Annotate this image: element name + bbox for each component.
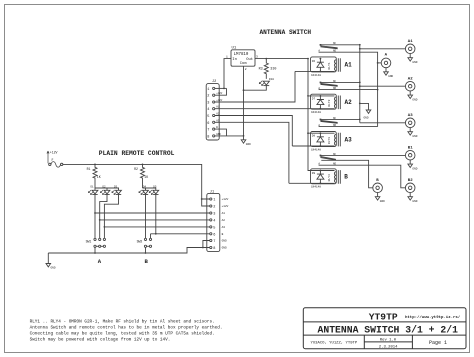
svg-text:RLY4: RLY4 [328, 174, 331, 181]
LED D5 [149, 185, 159, 194]
J2 pin 1 [207, 87, 226, 92]
wire line B to J1 pin6 [151, 234, 210, 239]
svg-text:1N4148: 1N4148 [311, 111, 321, 114]
svg-text:RLY1 .. RLY4 - OMRON G2R-1, Ma: RLY1 .. RLY4 - OMRON G2R-1, Make RF shie… [30, 319, 215, 324]
wire RLY4 bottom from J2 pin6 [289, 182, 335, 184]
svg-text:D8: D8 [312, 135, 316, 138]
svg-text:2.3.2014: 2.3.2014 [379, 345, 398, 349]
connector A2 coax [405, 78, 417, 102]
svg-text:8: 8 [207, 135, 209, 139]
svg-text:A1: A1 [222, 212, 226, 215]
LED D1 [88, 185, 98, 194]
wire U1 Out +10V rail [255, 58, 308, 60]
svg-text:6: 6 [213, 233, 215, 237]
svg-text:In: In [232, 58, 237, 62]
svg-text:NO: NO [333, 50, 337, 53]
svg-text:RLY1: RLY1 [328, 62, 331, 69]
contact RLY4 labels [318, 153, 336, 166]
svg-text:YT9TP: YT9TP [369, 312, 398, 323]
svg-text:1N4148: 1N4148 [311, 186, 321, 189]
svg-text:GND: GND [222, 247, 227, 250]
svg-text:1: 1 [207, 88, 209, 92]
svg-text:2: 2 [213, 206, 215, 210]
svg-text:GND: GND [412, 61, 417, 64]
svg-text:+12V: +12V [222, 198, 229, 201]
svg-text:GND: GND [364, 116, 369, 119]
svg-text:+12V: +12V [50, 150, 58, 154]
svg-text:D3: D3 [114, 185, 118, 188]
J1 pin 8 [202, 246, 227, 251]
J2 pin 3 wire to RLY1 [207, 71, 295, 105]
fuse F [49, 158, 63, 167]
svg-text:A1: A1 [408, 40, 413, 44]
svg-text:GND: GND [380, 200, 385, 203]
svg-text:NC: NC [333, 153, 337, 156]
svg-text:NO: NO [333, 87, 337, 90]
junction bus1 taps [359, 44, 361, 46]
junction +10V RLY1 [307, 58, 309, 60]
connector J1 body [207, 193, 220, 251]
svg-text:GND: GND [388, 75, 393, 78]
svg-text:GND: GND [412, 167, 417, 170]
svg-text:A3: A3 [408, 114, 413, 118]
svg-text:4: 4 [213, 219, 215, 223]
svg-text:D5: D5 [153, 185, 157, 188]
svg-text:B: B [222, 233, 224, 236]
switch SW2 [137, 238, 152, 253]
wire RLY1 bottom from J2 pin3 [295, 70, 335, 72]
ground bus1 [364, 110, 371, 119]
J1 pin 4 [210, 219, 226, 224]
svg-text:7: 7 [207, 129, 209, 133]
svg-text:330: 330 [270, 68, 276, 72]
junction Com/J2 pin8 [243, 135, 245, 137]
svg-text:NC: NC [333, 80, 337, 83]
wire U1 In from J2 pins 1-2 [224, 59, 231, 89]
relay RLY4 [311, 169, 349, 189]
svg-text:ANTENNA SWITCH 3/1 + 2/1: ANTENNA SWITCH 3/1 + 2/1 [318, 324, 459, 335]
wire +12V rail to J1 [63, 164, 210, 199]
J1 pin 6 [210, 233, 224, 238]
svg-text:Out: Out [246, 58, 253, 62]
svg-text:R3: R3 [259, 68, 263, 72]
svg-text:A: A [98, 258, 102, 265]
svg-text:D9: D9 [312, 172, 316, 175]
wire D2 cathode to SW1-2 [100, 195, 107, 239]
svg-text:+12V: +12V [216, 92, 223, 95]
connector B2 coax [405, 179, 417, 203]
svg-text:1N4148: 1N4148 [311, 148, 321, 151]
resistor R1 1K [87, 164, 101, 188]
svg-text:A2: A2 [222, 219, 226, 222]
ground below J2/Com [241, 136, 251, 146]
svg-text:J2: J2 [212, 80, 216, 84]
contact RLY1 NO line [319, 52, 378, 126]
svg-text:D6: D6 [312, 60, 316, 63]
J1 pin 5 [210, 226, 226, 231]
svg-text:A2: A2 [345, 99, 353, 106]
svg-text:A3: A3 [345, 136, 353, 143]
wire U1 Com down to GND [243, 66, 245, 136]
wire LED bridge branch B [143, 188, 156, 190]
J1 pin 1 [201, 198, 229, 203]
svg-text:GND: GND [222, 240, 227, 243]
contact RLY3 NO line [319, 126, 378, 128]
svg-text:6: 6 [207, 122, 209, 126]
wire line A3 to J1 pin5 [104, 226, 209, 228]
svg-text:1K: 1K [144, 175, 148, 179]
svg-text:D4: D4 [143, 185, 147, 188]
contact RLY3 armature wedge [321, 121, 337, 124]
junction bus2 taps [377, 62, 379, 64]
wire RLY3 top [308, 132, 335, 134]
junction +10V/R3 [265, 58, 267, 60]
junction R1 top [94, 164, 96, 166]
svg-text:NO: NO [333, 163, 337, 166]
svg-text:Page 1: Page 1 [429, 340, 447, 346]
contact RLY3 NC line [320, 118, 359, 120]
svg-text:A1: A1 [216, 106, 220, 109]
svg-text:7: 7 [213, 240, 215, 244]
J1 pin 3 [210, 212, 226, 217]
ground remote [46, 253, 56, 269]
wire armature A2 feed [360, 85, 406, 87]
wire RLY2 top [308, 95, 335, 97]
J1 pin 7 [203, 239, 227, 247]
J2 pin 7 [207, 126, 226, 136]
svg-text:B1: B1 [408, 147, 413, 151]
J2 pin 8 wire to GND [207, 133, 243, 140]
svg-text:GND: GND [412, 98, 417, 101]
contact RLY1 armature wedge [321, 46, 337, 49]
junction R2 top [142, 164, 144, 166]
regulator U1 LM7810 body [231, 47, 255, 67]
junction Com/LED return [243, 89, 245, 91]
svg-text:D2: D2 [103, 185, 107, 188]
svg-text:NC: NC [333, 42, 337, 45]
svg-text:YU3ACO, YU1ZZ, YT9TP: YU3ACO, YU1ZZ, YT9TP [311, 341, 358, 345]
contact RLY4 NC line to B1 [320, 154, 405, 156]
svg-text:A3: A3 [216, 119, 220, 122]
svg-text:B: B [344, 174, 348, 181]
relay RLY3 [311, 132, 353, 152]
svg-text:LM7810: LM7810 [234, 53, 249, 57]
contact RLY4 NO line to B2 [319, 165, 406, 188]
junction +10V RLY3 [307, 132, 309, 134]
svg-text:5: 5 [213, 226, 215, 230]
svg-text:1K: 1K [97, 175, 101, 179]
svg-text:ANTENNA SWITCH: ANTENNA SWITCH [260, 29, 312, 36]
svg-text:1: 1 [213, 199, 215, 203]
title block texts [311, 312, 461, 350]
wire D4 cathode to SW2-1 [145, 195, 147, 239]
svg-text:U1: U1 [232, 47, 237, 51]
wire D3 cathode to SW1-3 [104, 195, 118, 239]
svg-text:SW1: SW1 [86, 240, 92, 244]
svg-text:R1: R1 [87, 167, 91, 171]
svg-text:F: F [52, 158, 54, 162]
svg-text:GND: GND [216, 133, 221, 136]
wire RLY3 bottom from J2 pin5 [292, 145, 334, 147]
wire ground rail [48, 248, 209, 254]
svg-text:+12V: +12V [216, 99, 223, 102]
contact RLY3 labels [318, 117, 336, 127]
svg-text:B: B [376, 179, 379, 183]
contact RLY4 armature wire to B [321, 160, 373, 188]
J1 pin 2 [202, 199, 229, 210]
svg-text:A2: A2 [408, 78, 413, 82]
J2 pin 2 [207, 88, 226, 98]
node +12V supply arrow [47, 150, 58, 163]
svg-text:2: 2 [207, 95, 209, 99]
svg-text:4: 4 [207, 108, 209, 112]
connector J2 body [206, 80, 219, 140]
connector B coax [373, 179, 385, 203]
svg-text:A: A [385, 53, 388, 57]
LED D3 [112, 185, 122, 194]
junction +10V RLY2 [307, 95, 309, 97]
svg-text:NO: NO [333, 124, 337, 127]
title block frame [303, 308, 466, 349]
svg-text:3: 3 [207, 102, 209, 106]
connector A1 coax [405, 40, 417, 64]
wire line A2 to J1 pin4 [100, 219, 210, 221]
svg-text:GND: GND [51, 266, 56, 269]
contact RLY2 armature wedge [321, 84, 337, 87]
wire A connector feed from bus2 [378, 62, 382, 64]
svg-text:D10: D10 [269, 78, 274, 81]
resistor R2 1K [134, 164, 148, 188]
wire line A1 to J1 pin3 [95, 212, 210, 214]
relay RLY2 [311, 94, 353, 114]
switch SW1 [86, 238, 106, 253]
svg-text:GND: GND [246, 143, 251, 146]
wire armature A1 feed [360, 48, 406, 50]
junction J2 +12V bracket [223, 88, 225, 90]
contact RLY4 armature wedge [321, 157, 336, 161]
svg-text:A3: A3 [222, 226, 226, 229]
svg-text:NC: NC [333, 117, 337, 120]
contact RLY1 NC line [320, 44, 359, 46]
svg-text:RLY3: RLY3 [328, 137, 331, 144]
svg-text:2: 2 [245, 68, 247, 71]
svg-text:B: B [145, 258, 149, 265]
LED D2 [100, 185, 110, 194]
resistor R3 330 [259, 59, 277, 79]
svg-text:1N4148: 1N4148 [311, 74, 321, 77]
svg-text:RLY2: RLY2 [328, 99, 331, 106]
connector A3 coax [405, 114, 417, 138]
wire D5 cathode to line B [155, 195, 157, 234]
wire bus1 to ground [360, 103, 369, 110]
svg-text:GND: GND [412, 135, 417, 138]
LED D10 power indicator [244, 78, 275, 90]
notes text block [30, 319, 223, 342]
svg-text:D1: D1 [91, 185, 95, 188]
svg-text:GND: GND [412, 200, 417, 203]
svg-text:Rev 1.0: Rev 1.0 [380, 339, 397, 343]
svg-text:R2: R2 [134, 167, 138, 171]
svg-text:Com: Com [240, 62, 248, 66]
svg-text:Conecting cable may be quite l: Conecting cable may be quite long, teste… [30, 331, 215, 336]
svg-text:PLAIN REMOTE CONTROL: PLAIN REMOTE CONTROL [99, 150, 175, 157]
svg-text:Switch may be powered with col: Switch may be powered with coltage from … [30, 337, 171, 342]
connector A coax [381, 53, 393, 78]
svg-text:A2: A2 [216, 113, 220, 116]
wire LED bridge branch A [95, 188, 119, 190]
wire armature A3 feed [360, 122, 406, 124]
svg-text:Antenna Switch and remote cont: Antenna Switch and remote control has to… [30, 325, 223, 330]
svg-text:3: 3 [213, 213, 215, 217]
connector B1 coax [405, 147, 417, 171]
wire bus1 NC/ground bus [359, 45, 361, 123]
wire D1 cathode to SW1-1 [94, 195, 96, 239]
wire +10V vertical feed to relay coils [308, 59, 335, 171]
svg-text:A1: A1 [345, 62, 353, 69]
svg-text:B2: B2 [408, 179, 413, 183]
svg-text:D7: D7 [312, 97, 316, 100]
svg-text:5: 5 [207, 115, 209, 119]
J2 pin 5 wire to RLY3 [207, 113, 292, 147]
J2 pin 4 wire to RLY2 [207, 106, 334, 113]
contact RLY2 NO line [319, 89, 378, 91]
svg-text:J1: J1 [210, 190, 214, 194]
contact RLY2 labels [318, 80, 336, 90]
svg-text:+12V: +12V [222, 205, 229, 208]
svg-text:http://www.yt9tp.iz.rs/: http://www.yt9tp.iz.rs/ [405, 315, 461, 320]
LED D4 [139, 185, 149, 194]
J2 pin 6 wire to RLY4 [207, 119, 289, 183]
relay RLY1 [311, 57, 353, 77]
svg-text:8: 8 [213, 247, 215, 251]
svg-text:SW2: SW2 [137, 240, 143, 244]
contact RLY1 labels [318, 42, 336, 52]
contact RLY2 NC line [320, 81, 359, 83]
